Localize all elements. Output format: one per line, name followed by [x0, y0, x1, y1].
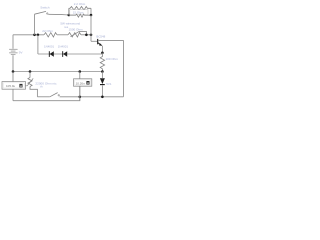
bottom rail upper wire: [60, 96, 124, 98]
svg-text:1500 Ohm: 1500 Ohm: [69, 28, 84, 32]
junction dot right: [101, 70, 104, 73]
wire between R2 and rheostat: [57, 34, 68, 36]
rheostat VR1 zigzag: [68, 33, 81, 37]
ammeter M1 bottom lead: [12, 90, 14, 101]
transistor Q1 base bar: [97, 39, 99, 44]
junction dot thermistor: [29, 70, 32, 73]
junction dot meter branch: [79, 70, 82, 73]
zener diode Z1 lead: [101, 72, 103, 79]
wire diode line: [38, 53, 103, 55]
wire battery bottom lead: [12, 55, 14, 71]
svg-text:5V1: 5V1: [106, 82, 112, 86]
junction dot right column at rail: [90, 34, 93, 37]
switch SW1 arm: [35, 11, 47, 14]
junction dot wiper tap: [85, 34, 88, 37]
svg-text:22000 Ohm ntc: 22000 Ohm ntc: [35, 81, 57, 85]
junction dot switch drop: [33, 34, 36, 37]
wire stub up left: [68, 8, 70, 15]
bottom switch SW2 arm: [50, 93, 58, 97]
wire top horizontal rail y34.8 left: [13, 34, 44, 36]
resistor R3 small zigzag: [76, 14, 85, 17]
svg-text:22 Ohm: 22 Ohm: [42, 29, 53, 33]
junction dot diode branch: [37, 34, 40, 37]
svg-text:9V: 9V: [19, 51, 23, 55]
wire mid horizontal line y71.5: [13, 71, 102, 73]
ammeter M1 box: [2, 82, 26, 90]
transistor Q1 emitter with arrow: [98, 43, 101, 46]
wire emitter down: [101, 46, 103, 53]
resistor R2 22 Ohm zigzag: [44, 33, 57, 37]
resistor R1 top zigzag: [69, 7, 91, 11]
svg-text:res: res: [64, 25, 69, 29]
zener diode Z1: [100, 78, 105, 84]
diode D2: [62, 51, 64, 57]
wire switch to parallel pair: [48, 13, 69, 16]
switch SW1 right post: [47, 13, 48, 14]
svg-text:2.2 Ohm: 2.2 Ohm: [74, 2, 86, 6]
zener bottom lead: [101, 85, 103, 96]
ammeter M2 lead bottom: [79, 86, 81, 100]
svg-text:10.26n: 10.26n: [76, 81, 86, 85]
bottom switch SW2 wire left: [37, 96, 49, 98]
ammeter M2 lead top: [79, 72, 81, 80]
value box label: [70, 10, 88, 15]
wire R3 to right node: [85, 14, 92, 16]
transistor Q1 collector lead: [98, 39, 124, 41]
junction dot left: [12, 70, 15, 73]
svg-text:100 Ohm: 100 Ohm: [106, 57, 119, 61]
node B right junction of parallel resistors: [90, 14, 93, 17]
node A left junction of parallel resistors: [68, 14, 71, 17]
svg-text:1N4001: 1N4001: [44, 45, 55, 49]
wire battery top lead: [12, 35, 14, 49]
junction dot meter branch bottom: [79, 96, 82, 99]
thermistor TH1 diagonal: [25, 78, 33, 85]
resistor R4 vertical zigzag: [100, 53, 104, 72]
thermistor TH1 leads: [29, 72, 31, 78]
thermistor bottom jog wire: [30, 87, 37, 97]
wire right column vertical: [90, 15, 92, 41]
svg-text:105.9u: 105.9u: [6, 84, 16, 88]
wire switch riser: [34, 14, 36, 35]
bottom rail lower wire: [13, 86, 80, 100]
wire stub down right: [90, 8, 92, 15]
ammeter M2 box: [74, 79, 92, 86]
svg-text:15 Ohm: 15 Ohm: [73, 11, 84, 15]
diode D1: [48, 51, 50, 57]
ammeter M1 top lead: [12, 72, 14, 83]
junction dot zener bottom: [101, 96, 104, 99]
svg-text:BC548: BC548: [96, 34, 105, 38]
rheostat wiper arm: [71, 31, 87, 36]
bottom switch SW2 post: [58, 95, 59, 96]
wire transistor base lead: [91, 40, 97, 42]
battery B1: [9, 49, 18, 55]
wire diode branch riser: [37, 35, 39, 54]
svg-text:1N4001: 1N4001: [58, 45, 69, 49]
resistor R3 bottom branch wire: [69, 14, 76, 16]
right edge wire: [123, 40, 125, 96]
wire rheostat to right column: [81, 34, 91, 36]
thermistor TH1 zigzag: [28, 78, 32, 87]
svg-text:Switch: Switch: [40, 6, 49, 10]
node emitter junction: [101, 52, 104, 55]
